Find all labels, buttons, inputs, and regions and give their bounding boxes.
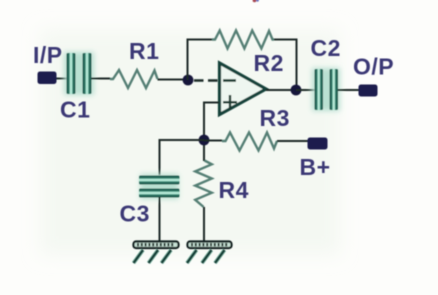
wire feedback left vertical: [188, 40, 213, 81]
svg-text:R1: R1: [129, 38, 159, 64]
terminal O/P: [359, 85, 378, 97]
stray dot artifact top: [253, 0, 259, 2]
wire: [159, 197, 161, 242]
node junction 1: [183, 75, 194, 86]
resistor R4: [195, 161, 212, 207]
wire op-amp output: [266, 89, 296, 91]
node junction output: [291, 85, 302, 96]
wire: [277, 140, 308, 142]
svg-text:R4: R4: [219, 177, 249, 203]
wire: [57, 78, 68, 80]
wire: [338, 89, 359, 91]
ground right: [187, 242, 232, 264]
node junction 2: [199, 135, 210, 146]
wire: [296, 89, 315, 91]
wire dashed to inverting input: [194, 79, 219, 82]
svg-text:B+: B+: [300, 154, 331, 180]
svg-text:R3: R3: [260, 105, 290, 131]
resistor R3: [222, 133, 277, 151]
wire R4 bottom: [203, 207, 205, 242]
terminal I/P: [38, 72, 57, 85]
plus sign: [223, 95, 237, 110]
svg-text:R2: R2: [254, 50, 284, 76]
svg-text:O/P: O/P: [353, 54, 394, 80]
wire feedback right vertical: [274, 40, 297, 91]
svg-text:C2: C2: [311, 35, 341, 61]
svg-text:C3: C3: [120, 201, 150, 227]
resistor R2: [212, 31, 274, 49]
ground left: [134, 242, 179, 264]
terminal B+: [308, 138, 328, 150]
capacitor C1: [64, 52, 94, 95]
wire: [92, 78, 111, 80]
wire R4 top: [203, 145, 205, 161]
wire: [204, 140, 222, 142]
svg-text:C1: C1: [60, 97, 90, 123]
resistor R1: [110, 70, 158, 88]
minus sign: [223, 79, 236, 82]
op-amp U1: [220, 63, 267, 115]
wire noninverting input: [204, 103, 219, 141]
wire left branch: [160, 140, 205, 175]
capacitor C3: [139, 174, 180, 199]
wire: [158, 79, 189, 81]
capacitor C2: [312, 68, 340, 111]
svg-text:I/P: I/P: [33, 42, 63, 68]
